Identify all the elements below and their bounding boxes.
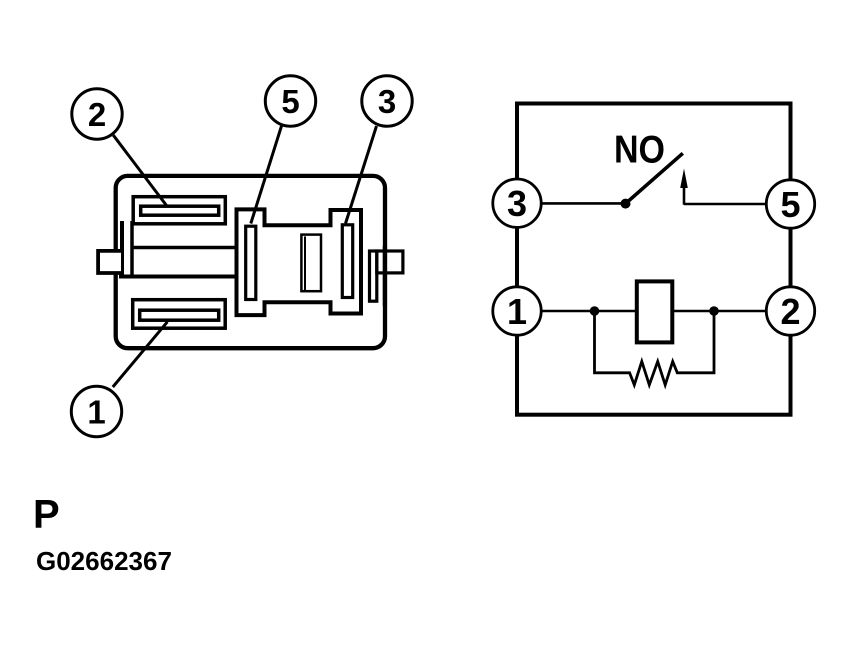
svg-text:1: 1 (507, 291, 527, 332)
svg-text:NO: NO (614, 128, 665, 171)
svg-text:P: P (33, 492, 60, 536)
svg-text:2: 2 (88, 96, 106, 133)
svg-text:3: 3 (507, 183, 527, 224)
svg-text:3: 3 (378, 83, 396, 120)
svg-text:2: 2 (780, 291, 800, 332)
svg-text:1: 1 (87, 394, 105, 431)
svg-text:5: 5 (780, 184, 800, 225)
svg-text:G02662367: G02662367 (36, 546, 172, 576)
svg-text:5: 5 (281, 83, 299, 120)
